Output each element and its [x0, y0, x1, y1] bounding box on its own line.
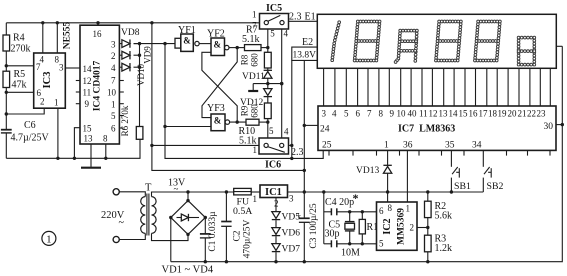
svg-text:VD11: VD11: [242, 72, 265, 82]
svg-text:14: 14: [449, 109, 459, 119]
wire left rail mid: [5, 51, 8, 71]
label IC4 pin8: [103, 134, 108, 144]
label NE555: [63, 22, 73, 50]
svg-text:0.5A: 0.5A: [233, 206, 252, 217]
label IC4 pin9: [85, 99, 90, 109]
svg-text:&: &: [183, 36, 191, 46]
wire VD8 node down to E-row: [163, 44, 323, 159]
labels IC7 top pins: [322, 109, 547, 119]
diode VD12: [240, 89, 272, 108]
wire cross YF3out to YF2in: [202, 52, 237, 122]
wire IC4 pin16 riser: [96, 21, 99, 25]
svg-text:10: 10: [107, 88, 117, 98]
wire YF1 out: [199, 43, 211, 45]
label IC6 pin4: [284, 127, 289, 137]
svg-text:2: 2: [40, 97, 45, 107]
label IC1 pin3: [289, 194, 294, 204]
wire IC4 pin13 down: [90, 144, 92, 158]
svg-text:VD6: VD6: [282, 229, 301, 239]
display dotted digits 18月88日: [331, 20, 536, 66]
wire C4C5 riser: [323, 192, 325, 244]
svg-text:5.1k: 5.1k: [242, 34, 260, 45]
wire bottom rail left: [6, 139, 140, 158]
box 13.8V: [292, 47, 318, 60]
label VD1~VD4: [162, 265, 214, 276]
svg-text:21: 21: [518, 109, 527, 119]
svg-text:2.3: 2.3: [291, 147, 304, 158]
svg-text:1: 1: [253, 194, 258, 204]
resistor R5: [3, 69, 27, 91]
svg-text:15: 15: [459, 109, 469, 119]
label IC5 pin4: [284, 29, 289, 39]
svg-text:5: 5: [379, 239, 384, 249]
wire R8 to VD11: [267, 68, 269, 71]
label IC4 pin4: [111, 63, 116, 73]
label IC4 pin2: [111, 51, 116, 61]
svg-text:IC3: IC3: [42, 72, 53, 89]
wire IC7 pin30 out: [556, 123, 564, 126]
gate YF3: [207, 103, 230, 131]
svg-text:3: 3: [111, 40, 116, 50]
diode VD11: [242, 70, 272, 82]
svg-text:36: 36: [403, 141, 413, 151]
svg-text:1: 1: [253, 145, 258, 155]
svg-text:1: 1: [384, 141, 389, 151]
svg-text:680: 680: [250, 53, 260, 67]
svg-text:12: 12: [429, 109, 438, 119]
wire VD6-VD7: [275, 236, 277, 243]
svg-text:47k: 47k: [12, 80, 27, 91]
svg-text:40: 40: [408, 109, 418, 119]
label IC4 pin12: [83, 76, 92, 86]
svg-text:8: 8: [379, 109, 384, 119]
terminal 220V bottom: [113, 236, 119, 242]
svg-text:680: 680: [250, 104, 260, 118]
switch IC5: [260, 3, 289, 29]
diode VD10: [119, 63, 145, 86]
wire IC5 right E1: [289, 20, 318, 22]
svg-text:2: 2: [111, 51, 116, 61]
label IC2 pin8: [388, 203, 393, 213]
svg-text:E2: E2: [302, 37, 313, 48]
label IC5 pin7: [252, 21, 257, 31]
svg-text:R8: R8: [240, 54, 250, 65]
label IC4 pin11: [83, 88, 92, 98]
wire VD5 chain top: [275, 198, 277, 212]
label IC6 pin5: [269, 126, 274, 136]
wire left rail upper: [5, 23, 7, 35]
wire bridge minus down: [170, 218, 172, 262]
capacitor C4: [324, 208, 377, 215]
capacitor C5: [324, 240, 377, 247]
wire VD13 to supply: [386, 173, 389, 193]
svg-text:4: 4: [111, 63, 116, 73]
svg-text:30p: 30p: [325, 229, 340, 240]
svg-text:9: 9: [390, 109, 395, 119]
svg-text:30: 30: [544, 122, 554, 132]
svg-text:5: 5: [270, 29, 275, 39]
svg-text:R4: R4: [13, 33, 25, 44]
wire IC2 pin2 out: [417, 226, 429, 229]
label IC3: [42, 72, 53, 89]
wire supply rail: [288, 190, 484, 193]
svg-text:7: 7: [111, 76, 116, 86]
svg-text:23: 23: [537, 109, 547, 119]
wire YF3 lower input: [165, 126, 211, 128]
svg-text:12: 12: [83, 76, 92, 86]
button SB2: [483, 150, 503, 192]
label IC3 pin4: [40, 55, 45, 65]
label IC4 pin7: [111, 76, 116, 86]
label IC4 pin14: [83, 64, 93, 74]
wire IC3 pin1 down: [56, 108, 59, 160]
svg-text:*: *: [353, 191, 359, 205]
label IC6 2.3: [291, 147, 304, 158]
svg-text:6: 6: [356, 109, 361, 119]
wire left rail lower: [5, 88, 8, 130]
wire mid row: [253, 82, 283, 85]
svg-text:5: 5: [111, 111, 116, 121]
wire 13V row: [152, 190, 234, 196]
wire C1 branch: [204, 218, 207, 264]
svg-text:NE555: NE555: [63, 22, 73, 50]
wire cross YF2out to YF3in: [202, 48, 237, 118]
fuse FU: [233, 188, 252, 217]
resistor R6: [120, 105, 143, 139]
wire diode bus: [138, 42, 141, 127]
transformer T secondary coil: [152, 197, 157, 234]
svg-text:3: 3: [289, 194, 294, 204]
svg-text:C2: C2: [233, 230, 243, 241]
wire 13.8V rail left: [150, 21, 304, 170]
svg-text:SB1: SB1: [454, 181, 471, 192]
stub IC4 pin1r: [119, 103, 123, 105]
svg-text:5: 5: [344, 109, 349, 119]
label IC7 LM8363: [398, 124, 455, 135]
svg-text:16: 16: [469, 109, 479, 119]
svg-text:7: 7: [367, 109, 372, 119]
svg-text:17: 17: [479, 109, 489, 119]
svg-text:13.8V: 13.8V: [293, 51, 317, 61]
svg-text:18: 18: [488, 109, 498, 119]
stub IC4 pin9: [76, 103, 80, 105]
label IC7 pin34: [472, 141, 482, 151]
ic IC2 MM5369 box: [377, 202, 418, 250]
diode VD7: [272, 244, 300, 255]
svg-text:4: 4: [284, 127, 289, 137]
gate YF2: [207, 29, 229, 56]
label 13V: [168, 178, 186, 195]
svg-text:5: 5: [269, 126, 274, 136]
svg-text:VD7: VD7: [282, 245, 301, 255]
svg-text:2: 2: [410, 223, 415, 233]
svg-text:1: 1: [46, 234, 52, 246]
wire display pins to IC7: [324, 68, 551, 106]
wire IC2 pin8 riser: [387, 192, 389, 202]
stubs IC7 bottom: [329, 150, 550, 155]
svg-text:C1 0.033µ: C1 0.033µ: [208, 211, 218, 252]
wire primary top: [119, 192, 145, 197]
svg-text:14: 14: [83, 64, 93, 74]
label IC4 pin5: [111, 111, 116, 121]
resistor R3: [425, 234, 453, 264]
svg-text:~: ~: [119, 218, 125, 229]
wire R10 to pin5line: [259, 120, 269, 123]
svg-text:19: 19: [498, 109, 508, 119]
label 2.3E1: [289, 12, 316, 23]
label IC5 pin1: [252, 10, 257, 20]
wire IC6 right 2.3: [289, 144, 294, 147]
label IC4 pin16: [93, 29, 103, 39]
label IC3 pin2: [40, 97, 45, 107]
wire IC5 pin4 to IC6: [280, 29, 283, 138]
label IC4 pin1: [111, 100, 116, 110]
wire IC7 pin36 down: [406, 150, 408, 202]
capacitor C6: [1, 120, 50, 144]
diode VD6: [272, 228, 300, 239]
svg-text:3: 3: [59, 63, 64, 73]
wire C2 branch: [225, 192, 228, 263]
diode VD5: [272, 212, 300, 223]
stub IC4 pin7: [119, 80, 123, 82]
stub IC4 pin6: [119, 127, 123, 129]
resistor R8: [240, 52, 272, 68]
svg-text:C6: C6: [24, 120, 36, 131]
diode VD13: [356, 165, 392, 176]
resistor R9: [240, 103, 272, 119]
svg-text:&: &: [214, 116, 222, 126]
label C4: [325, 191, 359, 208]
stub display right: [556, 45, 562, 47]
op IC3 NE555 box: [34, 53, 66, 108]
svg-text:IC2: IC2: [382, 218, 393, 234]
svg-text:34: 34: [472, 141, 482, 151]
label IC4 pin6: [111, 124, 116, 134]
stub IC4 pin5: [119, 115, 123, 117]
wire YF2 out: [229, 46, 245, 49]
label IC4 pin3: [111, 40, 116, 50]
wire IC3 pin2: [6, 108, 44, 114]
stub IC4 pin11: [76, 91, 80, 93]
label IC7 pin25: [322, 141, 332, 151]
svg-text:35: 35: [445, 141, 455, 151]
label IC4 CD4017: [93, 61, 103, 112]
label IC5 pin5: [270, 29, 275, 39]
svg-text:6: 6: [379, 206, 384, 216]
wire VD11 to VD12: [266, 78, 269, 88]
svg-text:5.6k: 5.6k: [435, 211, 453, 222]
stub IC4 pin12: [76, 80, 80, 82]
label IC2 pin6: [379, 206, 384, 216]
wire left rail bottom: [5, 133, 7, 158]
wire IC3 pin7: [6, 65, 33, 67]
svg-text:&: &: [214, 40, 222, 50]
svg-text:8: 8: [103, 134, 108, 144]
wire IC6 pin1: [152, 144, 259, 146]
wire YF3 out: [230, 120, 246, 123]
svg-text:4: 4: [284, 29, 289, 39]
svg-text:11: 11: [83, 88, 92, 98]
svg-text:10M: 10M: [341, 248, 360, 259]
resistor R4: [3, 33, 31, 55]
svg-text:C4 20p: C4 20p: [325, 197, 354, 208]
stub IC4 pin10: [119, 91, 123, 93]
svg-text:270k: 270k: [11, 44, 31, 55]
svg-text:IC4 CD4017: IC4 CD4017: [93, 61, 103, 112]
wire IC4 pin15 down: [73, 128, 80, 160]
transformer T primary coil: [141, 197, 146, 234]
svg-text:4.7µ/25V: 4.7µ/25V: [11, 133, 50, 144]
label IC2 pin5: [379, 239, 384, 249]
label IC4 pin10: [107, 88, 117, 98]
svg-text:11: 11: [419, 109, 428, 119]
diode VD9: [119, 46, 152, 64]
svg-text:2.3: 2.3: [289, 12, 302, 23]
capacitor C2: [221, 220, 252, 259]
transformer core: [147, 194, 149, 236]
wire IC3 pin6: [6, 91, 33, 93]
wire IC3 pin3 to IC4 pin14: [65, 67, 80, 69]
capacitor C1: [200, 211, 218, 252]
wire IC3 pin4 riser: [41, 21, 44, 53]
wire E2 box left drop: [290, 60, 293, 160]
wire R7 to pin5: [261, 46, 269, 49]
svg-text:1: 1: [54, 98, 59, 108]
svg-text:7: 7: [36, 62, 41, 72]
resistor R7: [242, 25, 261, 51]
svg-text:24: 24: [320, 125, 330, 135]
node YF1 input row: [134, 42, 176, 45]
bridge VD1-VD4: [169, 199, 207, 236]
wire bridge top drop: [187, 192, 189, 201]
wire IC3 pin8 riser: [56, 21, 59, 53]
label IC2 pin1: [406, 204, 411, 214]
switch IC6: [259, 138, 289, 171]
svg-text:VD8: VD8: [121, 28, 140, 38]
wire IC7 pin1 down: [387, 150, 389, 165]
svg-text:470µ/25V: 470µ/25V: [243, 220, 253, 259]
svg-text:10: 10: [397, 109, 407, 119]
wire IC7 pin24: [304, 124, 318, 126]
gate YF1: [175, 25, 199, 51]
label IC3 pin3: [59, 63, 64, 73]
wire IC5 pin5 down: [267, 29, 269, 52]
wire R9 to IC6: [267, 119, 269, 138]
resistor R10: [239, 119, 260, 146]
svg-text:15: 15: [83, 124, 93, 134]
svg-text:9: 9: [85, 99, 90, 109]
crystal 10M: [341, 212, 360, 259]
counter IC4 CD4017 box: [80, 25, 119, 144]
svg-text:YF3: YF3: [207, 103, 225, 114]
ground under IC4: [81, 158, 101, 167]
label IC3 pin8: [55, 55, 60, 65]
label E2: [302, 37, 313, 48]
label IC6 pin1: [253, 145, 258, 155]
button SB1: [450, 150, 471, 193]
svg-text:IC6: IC6: [265, 160, 281, 171]
svg-text:3: 3: [322, 109, 327, 119]
svg-text:22: 22: [527, 109, 536, 119]
wire FU to IC1: [251, 191, 260, 193]
terminal 220V top: [113, 189, 119, 195]
label C5: [325, 220, 341, 240]
label IC3 pin1: [54, 98, 59, 108]
wire bridge bottom return: [152, 233, 189, 240]
label IC4 pin15: [83, 124, 93, 134]
wire bottom ground rail: [171, 46, 563, 261]
capacitor C3: [296, 203, 319, 249]
svg-text:R5: R5: [14, 69, 26, 80]
svg-text:IC5: IC5: [266, 3, 282, 14]
svg-text:R6 270k: R6 270k: [120, 105, 130, 136]
svg-text:VD13: VD13: [356, 166, 379, 176]
label IC1 pin1: [253, 194, 258, 204]
wire VD7 down: [274, 252, 277, 263]
label IC7 pin24: [320, 125, 330, 135]
label IC3 pin7: [36, 62, 41, 72]
ic IC7 LM8363 box: [318, 106, 556, 150]
ground mid row: [248, 84, 258, 91]
display box: [317, 14, 556, 68]
svg-text:8: 8: [388, 203, 393, 213]
svg-text:IC1: IC1: [265, 187, 282, 198]
label IC2 pin2: [410, 223, 415, 233]
svg-text:6: 6: [111, 124, 116, 134]
label IC7 pin36: [403, 141, 413, 151]
label 220V: [101, 210, 125, 229]
resistor R1: [359, 212, 378, 244]
label IC7 pin1b: [384, 141, 389, 151]
svg-text:1: 1: [252, 10, 257, 20]
wire IC4 pin8 down: [104, 144, 107, 160]
svg-text:SB2: SB2: [487, 181, 504, 192]
figure number 1: [42, 231, 56, 245]
svg-text:VD1 ~ VD4: VD1 ~ VD4: [162, 265, 214, 276]
regulator IC1: [260, 185, 288, 198]
label T: [145, 183, 152, 194]
wire E2 rail: [303, 60, 306, 193]
svg-text:R9: R9: [240, 105, 250, 116]
svg-text:7: 7: [252, 21, 257, 31]
svg-text:+: +: [296, 211, 301, 221]
svg-text:1: 1: [111, 100, 116, 110]
svg-text:VD9: VD9: [142, 46, 152, 64]
resistor R2: [425, 192, 453, 235]
wire top supply rail: [6, 22, 259, 24]
svg-text:E1: E1: [305, 12, 316, 23]
diode VD8: [119, 28, 139, 48]
label IC4 pin13: [84, 134, 94, 144]
label IC1 pin2: [274, 199, 279, 209]
label IC7 pin35: [445, 141, 455, 151]
svg-text:1: 1: [406, 204, 411, 214]
label IC7 pin30: [544, 122, 554, 132]
wire VD5-VD6: [275, 220, 277, 227]
svg-text:16: 16: [93, 29, 103, 39]
wire primary bottom: [119, 233, 145, 239]
svg-text:1.2k: 1.2k: [435, 243, 453, 254]
svg-text:13: 13: [84, 134, 94, 144]
svg-text:C3 100µ/25: C3 100µ/25: [309, 203, 319, 249]
svg-text:IC7 LM8363: IC7 LM8363: [398, 124, 455, 135]
wire C3 branch: [303, 192, 306, 263]
svg-text:25: 25: [322, 141, 332, 151]
svg-text:20: 20: [508, 109, 518, 119]
label IC3 pin6: [37, 88, 42, 98]
svg-text:13: 13: [439, 109, 449, 119]
wire VD12 to R9: [267, 97, 269, 103]
